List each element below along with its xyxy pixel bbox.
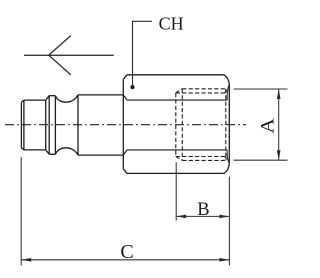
hex top edge — [127, 74, 224, 76]
flow-direction symbol horizontal line — [24, 54, 114, 56]
dimension B left extension line — [175, 162, 177, 220]
hex top-right chamfer — [224, 75, 229, 85]
hidden pilot bore bottom — [176, 156, 225, 158]
hex bottom-right chamfer — [224, 164, 229, 174]
hidden pilot bore top — [176, 92, 225, 94]
hex bottom-left chamfer — [123, 169, 127, 174]
hex upper face line — [127, 99, 227, 101]
hidden thread end — [181, 89, 183, 161]
svg-text:C: C — [120, 241, 133, 263]
plug tip top edge — [24, 99, 46, 101]
dimension A line — [278, 89, 280, 160]
CH leader line — [133, 21, 153, 87]
hex lower face line — [127, 149, 227, 151]
hex left junction slant top — [123, 95, 127, 100]
hex left edge — [122, 79, 124, 168]
flange max-diameter edge — [48, 96, 50, 155]
dimension C left arrow — [21, 258, 31, 262]
dimension C line — [21, 259, 229, 261]
plug tip left edge — [20, 102, 22, 147]
dimension B right arrow — [219, 215, 229, 219]
flange bottom edge — [49, 153, 55, 155]
hidden thread crest top — [182, 88, 227, 90]
flow-direction symbol lower barb — [49, 55, 71, 75]
CH leader dot — [130, 85, 134, 89]
plug tip top chamfer — [21, 100, 24, 102]
hex bottom edge — [127, 172, 224, 174]
flange top edge — [49, 95, 55, 97]
hex left junction slant bottom — [123, 150, 127, 155]
hidden entry chamfer slant bottom — [225, 157, 229, 161]
svg-text:B: B — [197, 200, 209, 220]
plug tip bottom edge — [24, 149, 46, 151]
flange front face — [45, 100, 47, 150]
dimension A bottom extension line — [234, 159, 288, 161]
hidden cone slant bottom — [176, 157, 183, 161]
hidden cone slant top — [176, 89, 183, 93]
dimension B line — [176, 215, 229, 217]
dimension B right extension line — [228, 177, 230, 266]
hex right face chamfer arc top — [227, 85, 229, 101]
body bottom edge — [78, 154, 123, 156]
dimension A bottom arrow — [277, 150, 281, 160]
hidden entry chamfer slant top — [225, 89, 229, 93]
dimension C right arrow — [219, 258, 229, 262]
body top edge — [78, 94, 123, 96]
flange rear face — [54, 96, 56, 155]
svg-text:A: A — [257, 118, 278, 134]
hidden thread crest bottom — [182, 159, 227, 161]
hex right face edge — [228, 85, 230, 164]
hex right face chamfer arc bottom — [227, 150, 229, 164]
flange top chamfer — [46, 96, 50, 100]
centerline — [5, 124, 246, 126]
plug tip bottom chamfer — [21, 148, 24, 150]
dimension B left arrow — [176, 215, 186, 219]
dimension C left extension line — [20, 157, 22, 266]
plug tip chamfer edge line — [23, 100, 25, 150]
flow-direction symbol upper barb — [49, 36, 71, 56]
hex top-left chamfer — [123, 75, 127, 80]
dimension A top extension line — [234, 88, 288, 90]
body front edge — [77, 95, 79, 155]
svg-text:CH: CH — [159, 14, 184, 34]
dimension A top arrow — [277, 89, 281, 99]
flange bottom chamfer — [46, 150, 50, 154]
groove bottom curve — [55, 148, 78, 155]
hidden entry chamfer circle — [225, 89, 227, 161]
groove top curve — [55, 95, 78, 102]
hidden pilot bore bottom end — [175, 93, 177, 157]
